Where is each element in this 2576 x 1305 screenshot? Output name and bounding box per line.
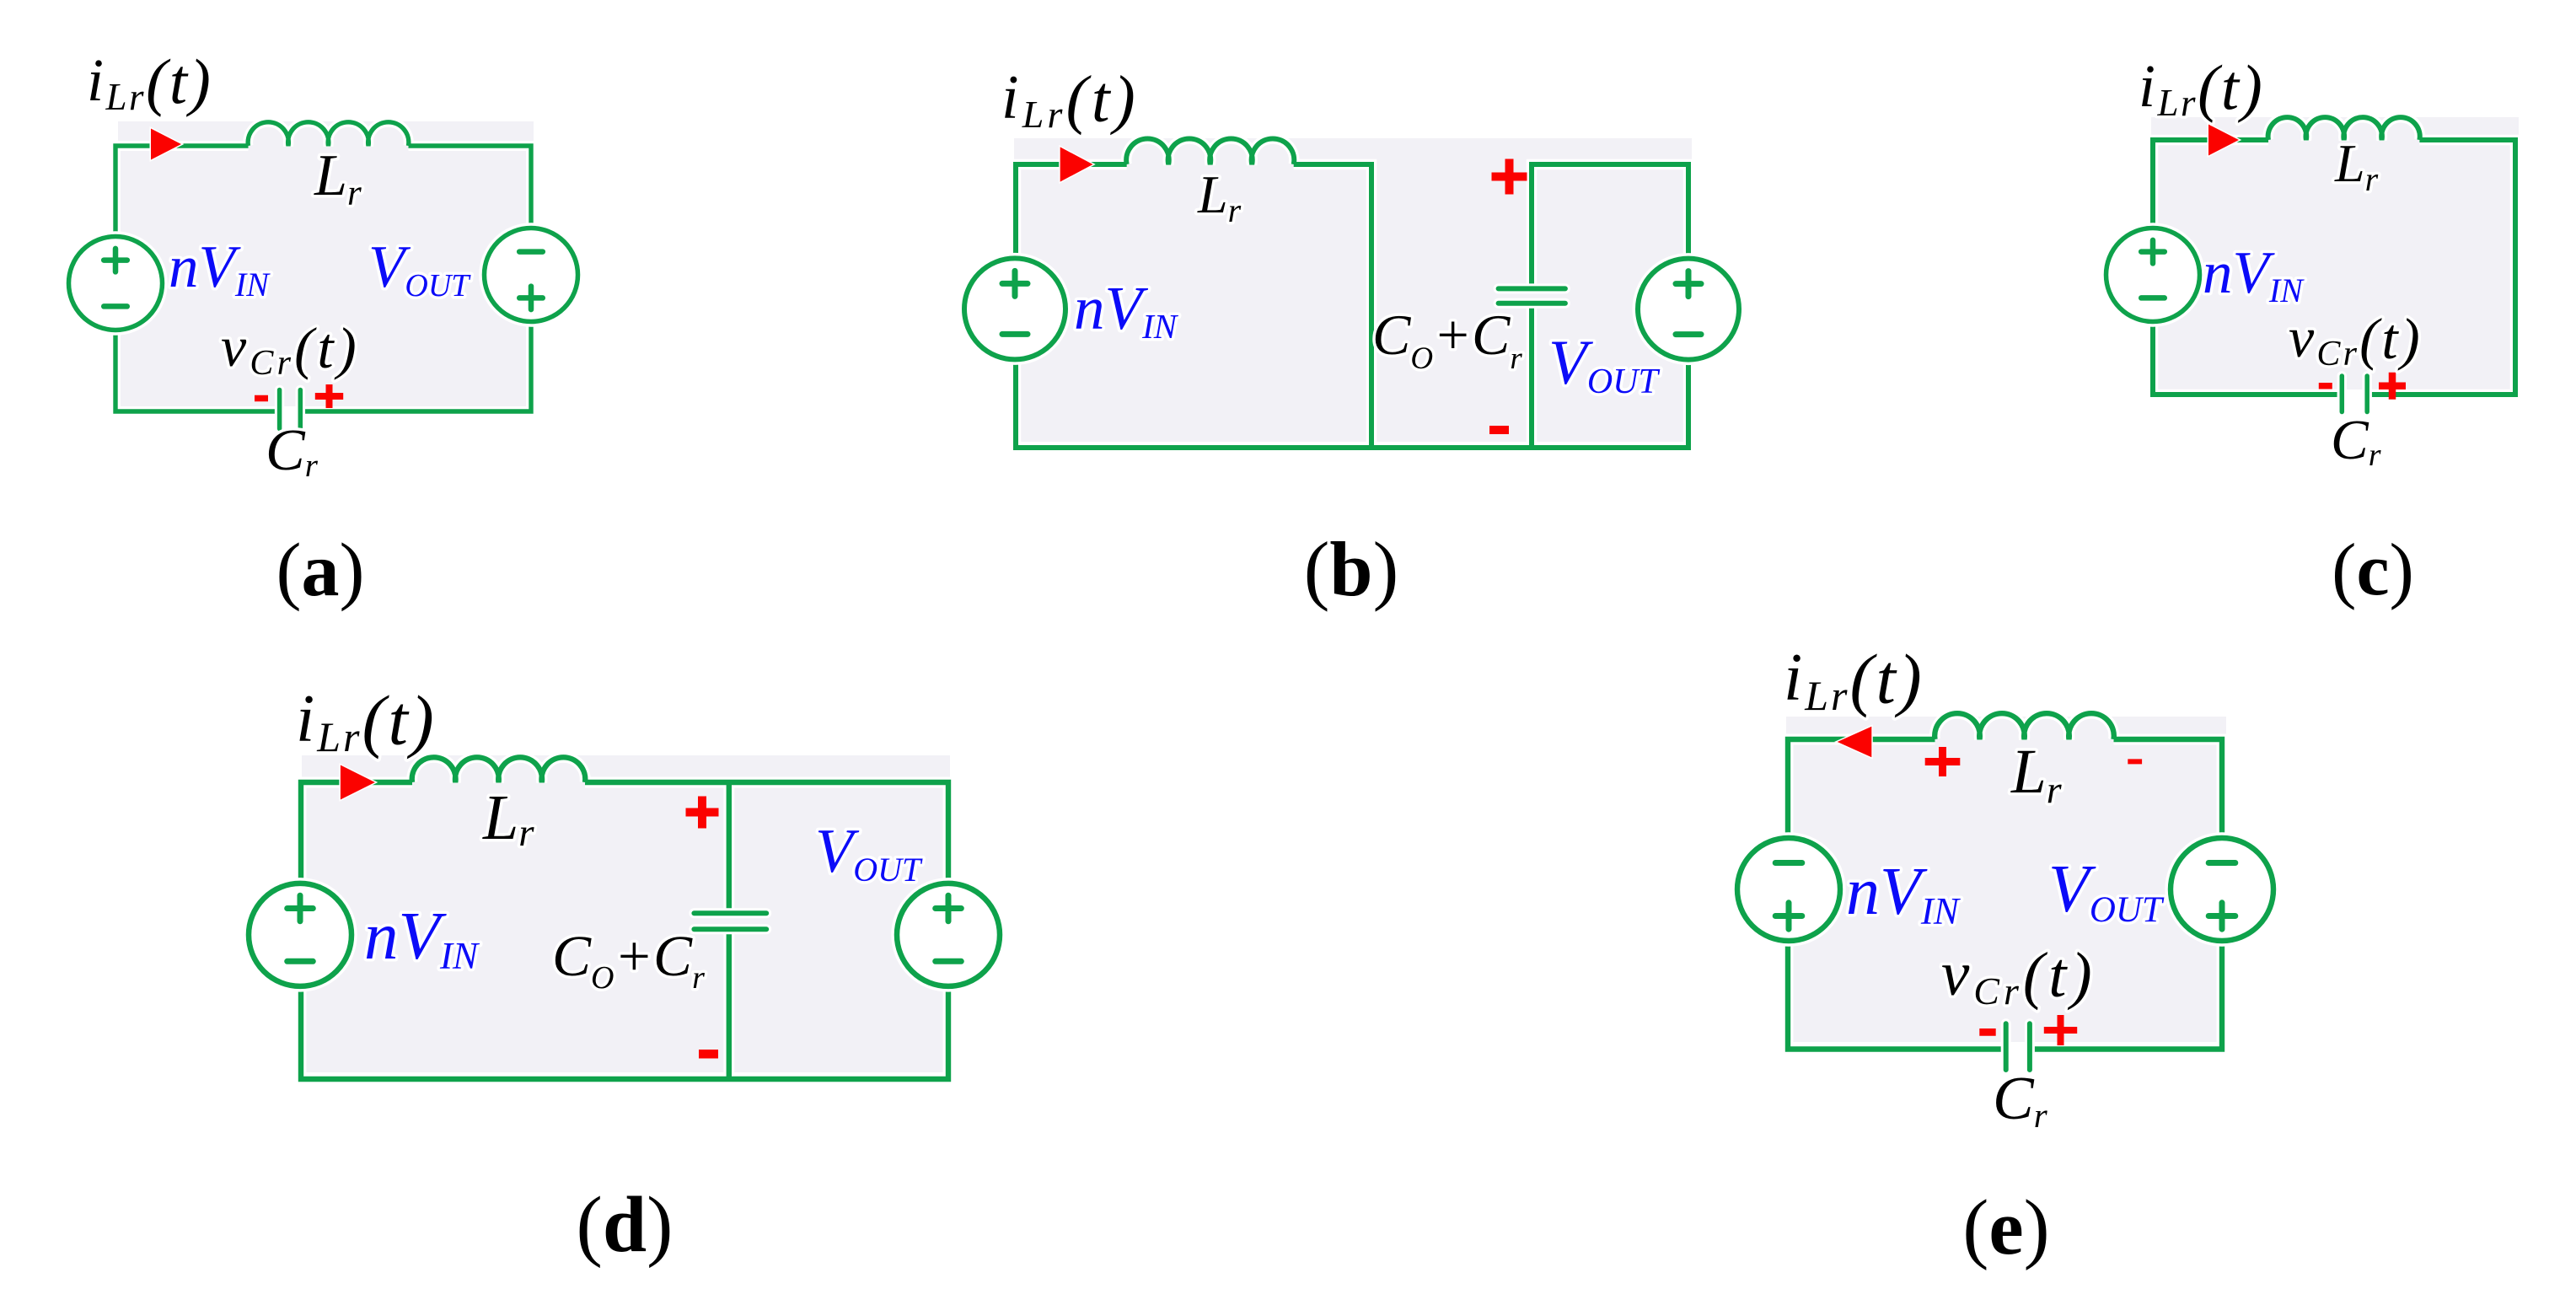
svg-text:iLr(t): iLr(t) xyxy=(87,46,212,118)
svg-text:(c): (c) xyxy=(2332,529,2414,611)
svg-text:iLr(t): iLr(t) xyxy=(1784,640,1924,719)
svg-text:CO+Cr: CO+Cr xyxy=(1372,303,1522,376)
svg-text:(b): (b) xyxy=(1304,526,1398,612)
svg-text:iLr(t): iLr(t) xyxy=(296,681,437,760)
svg-text:(d): (d) xyxy=(577,1181,674,1269)
svg-text:(e): (e) xyxy=(1962,1184,2049,1271)
svg-text:iLr(t): iLr(t) xyxy=(2139,52,2264,124)
svg-text:CO+Cr: CO+Cr xyxy=(552,924,705,996)
svg-text:(a): (a) xyxy=(276,529,365,612)
svg-text:iLr(t): iLr(t) xyxy=(1001,62,1139,136)
